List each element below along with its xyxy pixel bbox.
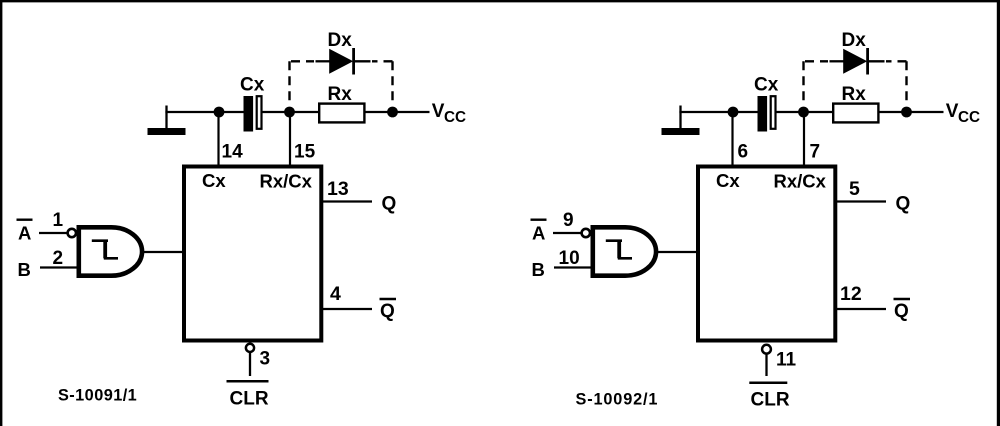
gate U (Schmitt AND shape) — [593, 227, 656, 275]
wire gate output to IC — [657, 251, 699, 253]
svg-text:14: 14 — [222, 142, 244, 163]
svg-text:Cx: Cx — [202, 170, 226, 191]
wire input A — [553, 232, 581, 234]
CLR overline — [227, 380, 269, 383]
wire node 2 to Rx — [804, 111, 835, 113]
svg-text:B: B — [18, 259, 31, 280]
svg-text:V: V — [432, 101, 445, 122]
ground — [662, 128, 700, 135]
svg-text:Dx: Dx — [328, 30, 353, 51]
wire node 3 to VCC — [907, 111, 944, 113]
resistor Rx — [833, 104, 878, 123]
wire output Q-bar — [837, 308, 886, 310]
svg-text:12: 12 — [840, 283, 862, 305]
svg-text:Rx: Rx — [328, 84, 353, 105]
wire node 1 to Cx — [219, 111, 245, 113]
diode Dx cathode bar — [866, 48, 869, 75]
wire output Q-bar — [323, 308, 372, 310]
gate hysteresis symbol — [92, 241, 118, 259]
svg-text:1: 1 — [53, 210, 64, 231]
capacitor Cx plate 1 (filled) — [758, 96, 768, 132]
wire dashed top-right — [372, 60, 393, 62]
wire diode anode lead — [830, 60, 845, 62]
svg-text:Q: Q — [894, 301, 909, 322]
svg-text:S-10092/1: S-10092/1 — [576, 390, 659, 408]
wire dashed top-right — [886, 60, 907, 62]
wire Rx to node 3 — [878, 111, 906, 113]
svg-text:Q: Q — [380, 301, 395, 322]
wire dashed down to node 3 — [905, 61, 907, 106]
wire dashed node 2 up — [802, 61, 804, 106]
CLR overline — [749, 382, 787, 385]
svg-text:S-10091/1: S-10091/1 — [58, 386, 137, 404]
svg-text:Rx: Rx — [842, 84, 867, 105]
wire node 2 to Rx — [290, 111, 321, 113]
input label A-bar — [531, 220, 547, 244]
capacitor Cx plate 2 (hollow) — [771, 96, 776, 129]
diode Dx triangle — [843, 49, 867, 74]
wire node 1 to Cx — [733, 111, 759, 113]
svg-text:Q: Q — [382, 194, 397, 215]
wire input B — [554, 266, 593, 268]
svg-text:A: A — [18, 223, 31, 244]
svg-text:2: 2 — [53, 248, 64, 269]
svg-text:6: 6 — [738, 142, 749, 163]
power label VCC — [946, 101, 980, 126]
input label A-bar — [17, 220, 33, 244]
diode Dx triangle — [329, 49, 353, 74]
gate input bubble (pin 1) — [68, 229, 76, 237]
svg-text:A: A — [532, 223, 545, 244]
node junction 2 — [798, 107, 809, 118]
wire dashed node 2 up — [288, 61, 290, 106]
wire gate output to IC — [143, 251, 185, 253]
node junction 2 — [284, 107, 295, 118]
svg-text:CC: CC — [444, 109, 466, 126]
svg-text:CC: CC — [958, 109, 980, 126]
svg-text:10: 10 — [559, 248, 580, 269]
IC body U — [184, 167, 321, 341]
border frame left — [0, 0, 2, 426]
wire pin 7 (Rx/Cx) — [803, 112, 805, 165]
wire ground stub — [679, 106, 681, 130]
wire dashed down to node 3 — [391, 61, 393, 106]
svg-text:7: 7 — [810, 142, 821, 163]
power label VCC — [432, 101, 466, 126]
wire diode cathode lead — [354, 60, 371, 62]
wire pin 6 (Cx) — [731, 112, 733, 165]
gate hysteresis symbol — [606, 241, 632, 259]
capacitor Cx plate 2 (hollow) — [257, 96, 262, 129]
resistor Rx — [319, 104, 364, 123]
gate U (Schmitt AND shape) — [79, 227, 142, 275]
svg-text:CLR: CLR — [230, 389, 269, 410]
pin bubble CLR — [762, 345, 771, 354]
diode Dx cathode bar — [352, 48, 355, 75]
output label Q-bar — [380, 299, 397, 322]
wire output Q — [837, 200, 886, 202]
wire diode cathode lead — [868, 60, 885, 62]
svg-text:Cx: Cx — [716, 170, 740, 191]
svg-text:9: 9 — [563, 210, 574, 231]
wire node 3 to VCC — [393, 111, 430, 113]
pin bubble CLR — [246, 344, 254, 352]
wire ground stub — [165, 106, 167, 130]
svg-text:4: 4 — [330, 283, 341, 305]
capacitor Cx plate 1 (filled) — [244, 96, 254, 132]
wire pin 15 (Rx/Cx) — [289, 112, 291, 165]
IC body U — [698, 167, 835, 341]
node junction 3 — [387, 107, 398, 118]
border frame right — [997, 0, 1000, 426]
border frame top — [0, 0, 1000, 2]
wire dashed top-left to diode — [805, 60, 828, 62]
svg-text:Cx: Cx — [754, 75, 779, 96]
svg-text:3: 3 — [260, 349, 271, 370]
wire ground to node 1 — [679, 111, 733, 113]
svg-text:V: V — [946, 101, 959, 122]
node junction 1 — [214, 107, 225, 118]
gate input bubble (pin 9) — [582, 229, 590, 237]
svg-text:11: 11 — [776, 350, 797, 371]
ground — [148, 128, 186, 135]
svg-text:15: 15 — [294, 142, 316, 163]
svg-text:Rx/Cx: Rx/Cx — [774, 171, 827, 192]
wire CLR — [765, 354, 767, 376]
svg-text:5: 5 — [849, 178, 860, 200]
wire input A — [39, 232, 67, 234]
wire dashed top-left to diode — [291, 60, 314, 62]
svg-text:Cx: Cx — [240, 75, 265, 96]
wire diode anode lead — [316, 60, 331, 62]
svg-text:CLR: CLR — [751, 389, 790, 410]
wire Cx to node 2 — [263, 111, 290, 113]
wire ground to node 1 — [165, 111, 219, 113]
node junction 3 — [901, 107, 912, 118]
wire CLR — [249, 353, 251, 376]
wire Cx to node 2 — [777, 111, 804, 113]
svg-text:Rx/Cx: Rx/Cx — [260, 171, 313, 192]
svg-text:Q: Q — [896, 194, 911, 215]
output label Q-bar — [894, 299, 911, 322]
svg-text:13: 13 — [327, 178, 349, 200]
node junction 1 — [728, 107, 739, 118]
wire Rx to node 3 — [364, 111, 392, 113]
wire input B — [40, 266, 79, 268]
svg-text:Dx: Dx — [842, 30, 867, 51]
svg-text:B: B — [532, 259, 545, 280]
wire output Q — [323, 200, 372, 202]
wire pin 14 (Cx) — [217, 112, 219, 165]
